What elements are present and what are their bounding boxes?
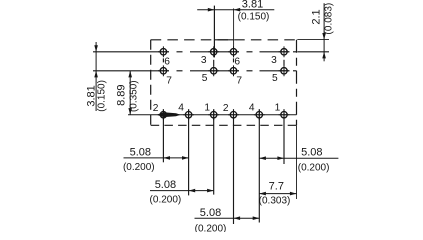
svg-text:5.08: 5.08 (130, 146, 151, 158)
svg-text:7: 7 (236, 75, 242, 86)
svg-text:4: 4 (249, 103, 255, 114)
svg-text:8.89: 8.89 (115, 84, 127, 105)
svg-text:(0.200): (0.200) (123, 162, 155, 173)
svg-text:7: 7 (166, 75, 172, 86)
svg-text:3: 3 (201, 55, 207, 66)
svg-text:5.08: 5.08 (155, 179, 176, 191)
svg-text:(0.200): (0.200) (298, 163, 330, 174)
svg-text:(0.303): (0.303) (259, 195, 291, 206)
svg-text:5: 5 (202, 73, 208, 84)
svg-text:1: 1 (275, 103, 281, 114)
svg-text:2: 2 (153, 103, 159, 114)
svg-text:(0.150): (0.150) (238, 11, 270, 22)
svg-text:6: 6 (234, 57, 240, 68)
svg-text:(0.200): (0.200) (195, 223, 227, 232)
svg-text:6: 6 (164, 57, 170, 68)
svg-text:(0.200): (0.200) (150, 195, 182, 206)
svg-text:4: 4 (178, 103, 184, 114)
svg-text:5: 5 (272, 73, 278, 84)
svg-text:3.81: 3.81 (242, 0, 263, 10)
svg-text:(0.083): (0.083) (323, 3, 334, 35)
svg-text:(0.150): (0.150) (96, 80, 107, 112)
svg-text:2: 2 (223, 103, 229, 114)
svg-text:2.1: 2.1 (311, 9, 323, 24)
svg-text:3: 3 (271, 55, 277, 66)
svg-text:(0.350): (0.350) (129, 80, 140, 112)
svg-text:1: 1 (204, 103, 210, 114)
svg-text:5.08: 5.08 (301, 146, 322, 158)
svg-text:5.08: 5.08 (200, 207, 221, 219)
svg-text:7.7: 7.7 (269, 180, 284, 192)
